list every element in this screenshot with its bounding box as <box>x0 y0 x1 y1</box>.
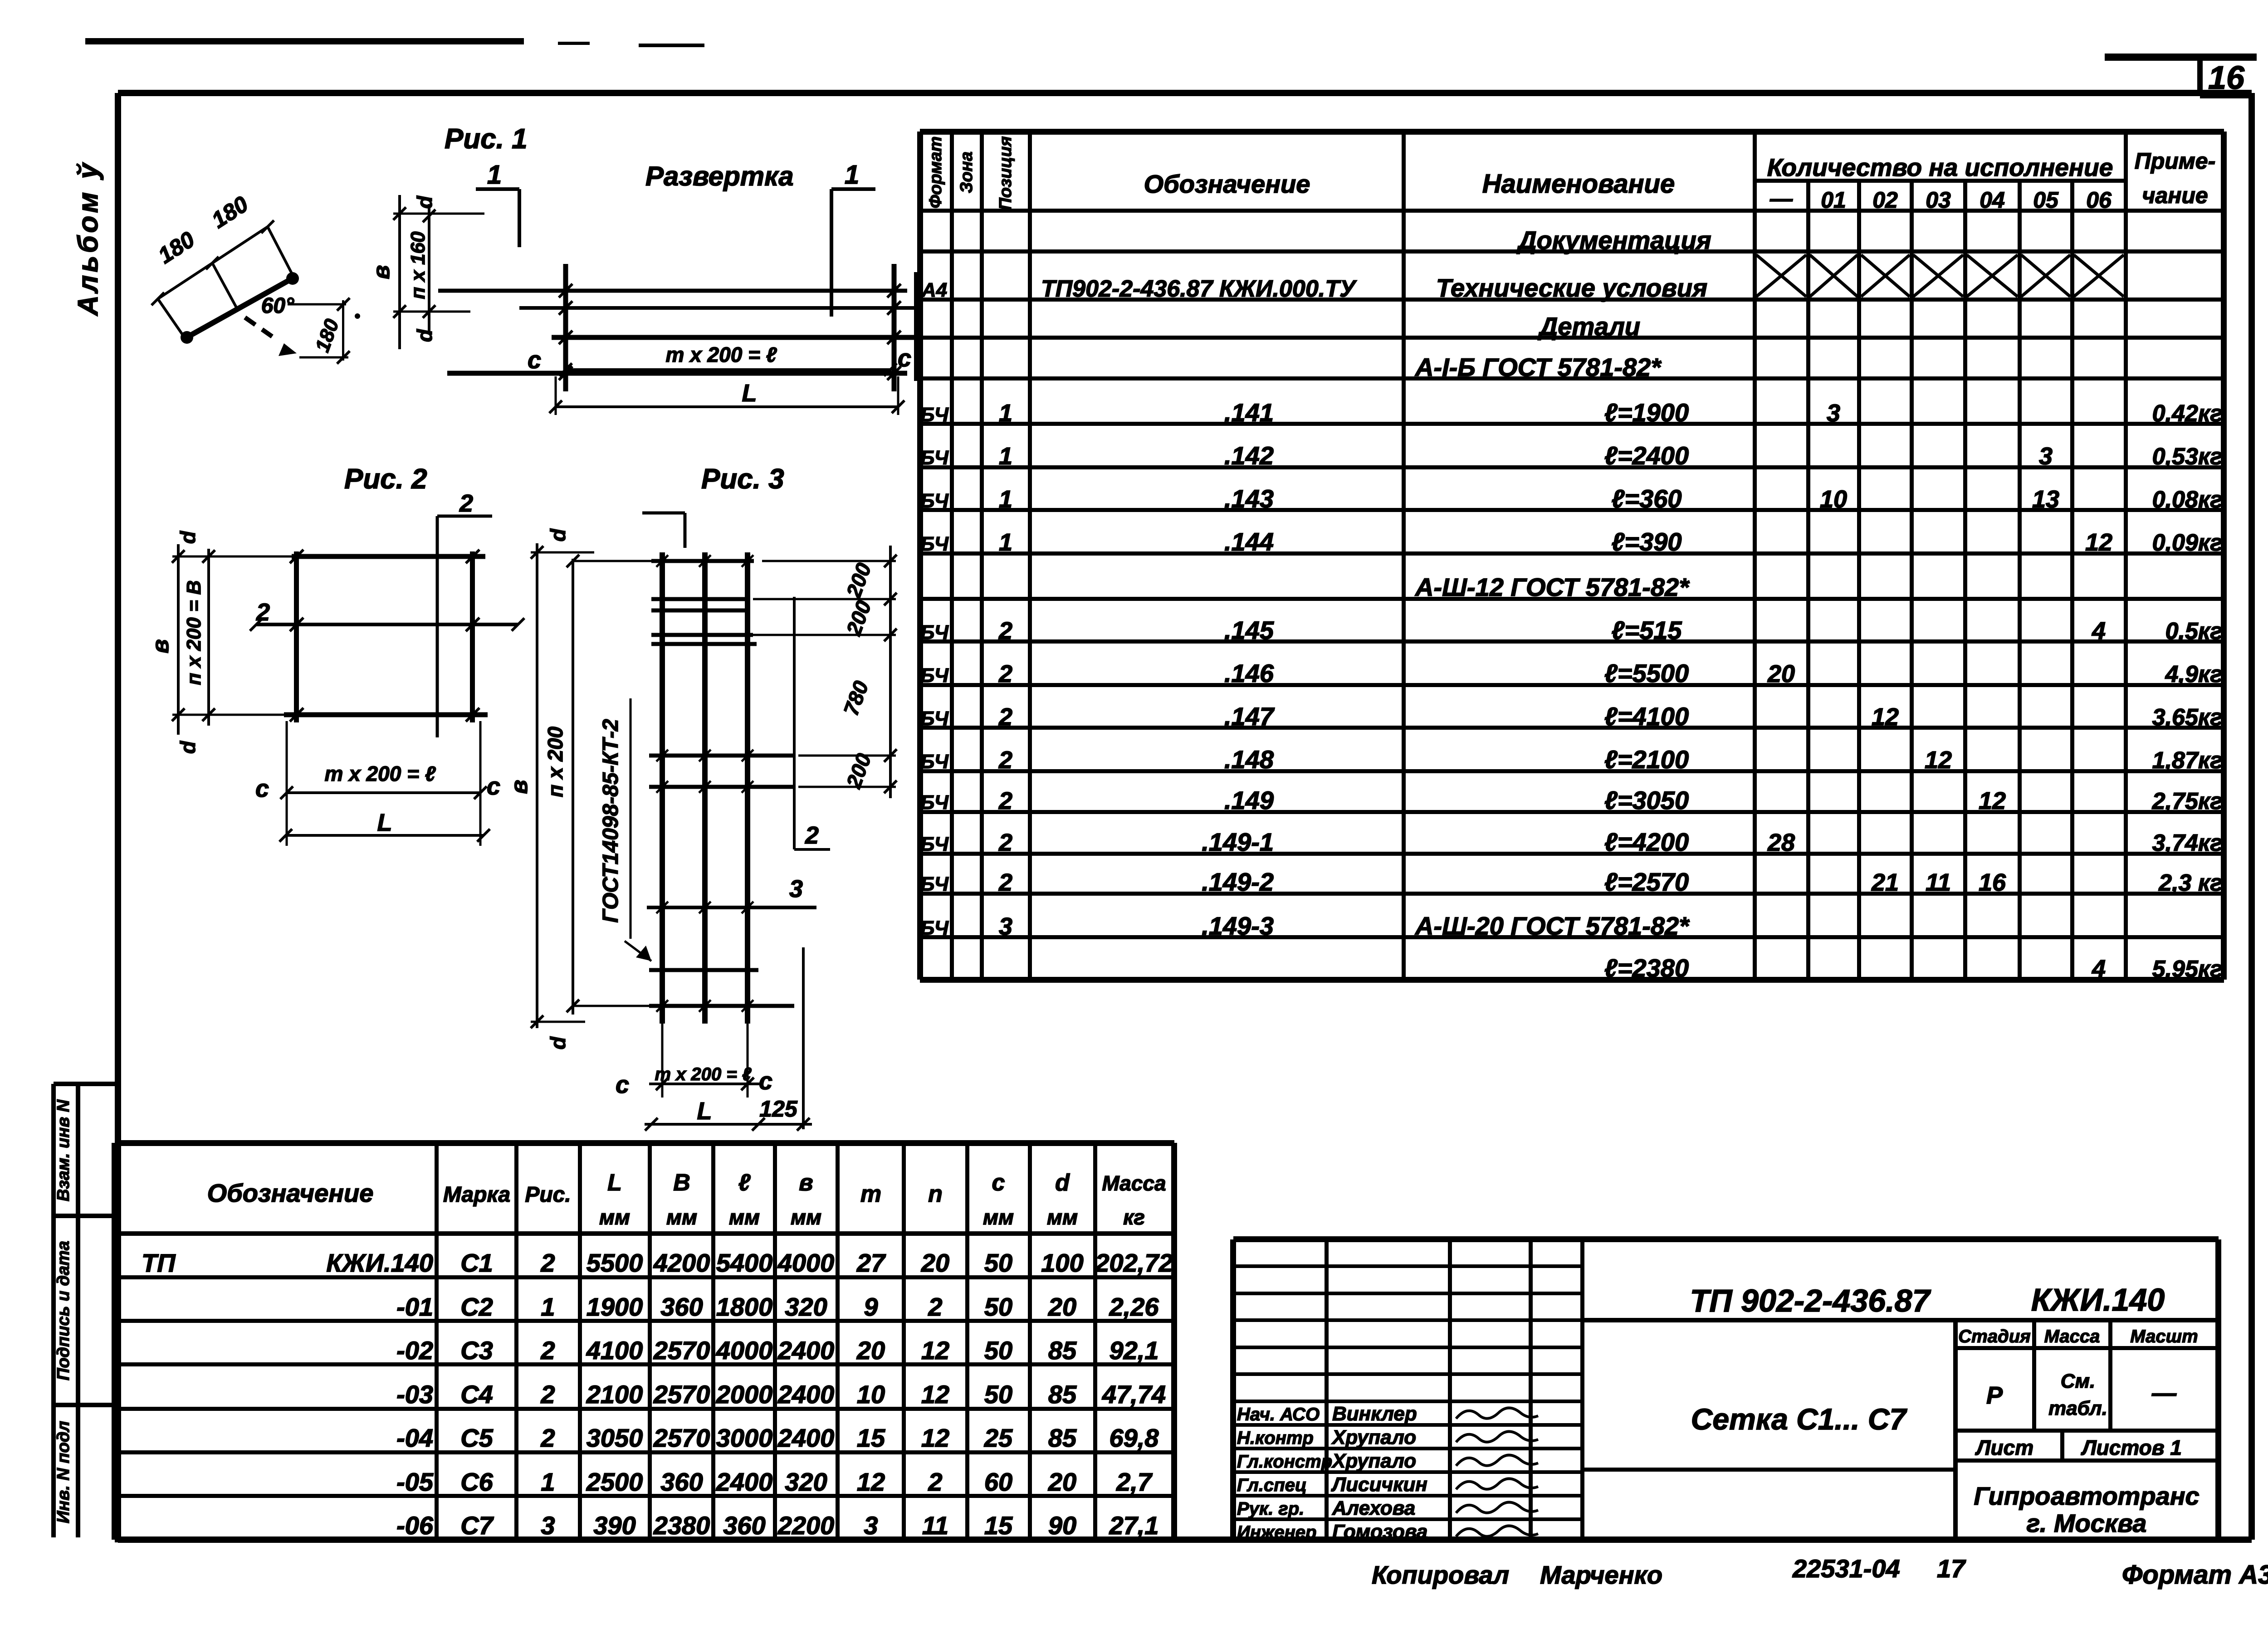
svg-text:50: 50 <box>984 1380 1012 1409</box>
svg-text:Позиция: Позиция <box>996 136 1015 210</box>
svg-text:ТП: ТП <box>142 1249 176 1277</box>
svg-text:2: 2 <box>540 1424 555 1452</box>
svg-text:3: 3 <box>541 1511 555 1540</box>
svg-text:Обозначение: Обозначение <box>1144 170 1310 198</box>
svg-text:БЧ: БЧ <box>920 404 949 426</box>
svg-text:2: 2 <box>805 822 819 849</box>
svg-text:n: n <box>928 1181 943 1207</box>
svg-text:20: 20 <box>856 1336 885 1365</box>
svg-text:13: 13 <box>2032 486 2059 513</box>
svg-text:2: 2 <box>998 829 1012 856</box>
svg-text:5400: 5400 <box>716 1249 773 1277</box>
svg-text:5,95кг: 5,95кг <box>2152 956 2223 982</box>
svg-text:Рис. 2: Рис. 2 <box>344 463 427 495</box>
svg-text:-05: -05 <box>396 1468 434 1496</box>
svg-text:БЧ: БЧ <box>920 707 949 730</box>
svg-text:d: d <box>413 195 436 209</box>
svg-text:БЧ: БЧ <box>920 533 949 555</box>
svg-text:Винклер: Винклер <box>1332 1403 1417 1425</box>
svg-text:Гипроавтотранс: Гипроавтотранс <box>1974 1482 2199 1510</box>
svg-text:c: c <box>759 1068 772 1095</box>
svg-text:ℓ=2380: ℓ=2380 <box>1604 954 1689 982</box>
svg-text:c: c <box>992 1170 1005 1196</box>
svg-text:3,74кг: 3,74кг <box>2152 830 2223 856</box>
svg-text:мм: мм <box>599 1205 630 1229</box>
svg-text:В: В <box>673 1170 690 1196</box>
svg-text:2400: 2400 <box>777 1380 835 1409</box>
svg-text:.144: .144 <box>1224 527 1274 556</box>
svg-text:85: 85 <box>1048 1380 1077 1409</box>
svg-text:11: 11 <box>922 1511 948 1540</box>
svg-text:17: 17 <box>1937 1554 1966 1583</box>
svg-text:16: 16 <box>2208 60 2245 96</box>
svg-text:d: d <box>176 531 200 544</box>
svg-text:ℓ=2400: ℓ=2400 <box>1604 441 1689 470</box>
svg-text:0,53кг: 0,53кг <box>2152 444 2223 470</box>
svg-text:2: 2 <box>998 869 1012 896</box>
svg-text:3: 3 <box>999 913 1012 940</box>
svg-text:-03: -03 <box>396 1380 433 1409</box>
svg-text:.142: .142 <box>1224 441 1274 470</box>
svg-text:2: 2 <box>928 1293 942 1321</box>
svg-text:1: 1 <box>541 1468 555 1496</box>
svg-text:2,7: 2,7 <box>1116 1468 1153 1496</box>
svg-text:1: 1 <box>999 486 1012 513</box>
svg-text:125: 125 <box>759 1096 798 1122</box>
svg-text:Н.контр: Н.контр <box>1237 1428 1314 1448</box>
svg-text:320: 320 <box>785 1468 827 1496</box>
svg-text:Лист: Лист <box>1975 1436 2033 1459</box>
svg-text:16: 16 <box>1979 869 2006 896</box>
svg-text:m: m <box>860 1181 881 1207</box>
svg-text:3: 3 <box>789 875 803 902</box>
svg-text:202,72: 202,72 <box>1095 1249 1173 1277</box>
svg-text:12: 12 <box>921 1424 949 1452</box>
svg-text:мм: мм <box>666 1205 697 1229</box>
svg-text:.149-3: .149-3 <box>1202 912 1274 940</box>
svg-text:.146: .146 <box>1224 659 1274 688</box>
svg-text:c: c <box>487 773 500 800</box>
svg-text:Рис. 1: Рис. 1 <box>445 123 528 155</box>
svg-text:1800: 1800 <box>716 1293 773 1321</box>
svg-text:С4: С4 <box>460 1380 493 1409</box>
svg-text:L: L <box>377 809 392 836</box>
svg-text:2500: 2500 <box>586 1468 643 1496</box>
svg-text:в: в <box>506 780 533 794</box>
svg-text:12: 12 <box>921 1380 949 1409</box>
svg-text:ℓ=1900: ℓ=1900 <box>1604 398 1689 427</box>
svg-text:12: 12 <box>1872 703 1899 731</box>
svg-text:69,8: 69,8 <box>1110 1424 1159 1452</box>
svg-text:Приме-: Приме- <box>2135 148 2216 174</box>
svg-text:0,5кг: 0,5кг <box>2165 618 2223 644</box>
svg-text:п х 200 = В: п х 200 = В <box>183 580 205 685</box>
svg-text:Документация: Документация <box>1516 226 1711 254</box>
svg-text:3050: 3050 <box>587 1424 643 1452</box>
svg-text:Лисичкин: Лисичкин <box>1331 1473 1427 1496</box>
svg-text:12: 12 <box>1925 746 1952 774</box>
svg-text:—: — <box>1769 186 1793 211</box>
svg-text:Хрупало: Хрупало <box>1331 1450 1416 1472</box>
svg-text:15: 15 <box>984 1511 1013 1540</box>
svg-text:9: 9 <box>864 1293 878 1321</box>
svg-text:.141: .141 <box>1224 398 1274 427</box>
svg-text:10: 10 <box>857 1380 885 1409</box>
svg-text:0,42кг: 0,42кг <box>2152 400 2223 427</box>
svg-text:Гомозова: Гомозова <box>1332 1521 1427 1543</box>
svg-text:c: c <box>616 1071 629 1098</box>
svg-text:2,75кг: 2,75кг <box>2152 788 2223 815</box>
svg-text:2400: 2400 <box>777 1336 835 1365</box>
svg-text:5500: 5500 <box>587 1249 643 1277</box>
svg-text:БЧ: БЧ <box>920 917 949 939</box>
svg-text:27,1: 27,1 <box>1109 1511 1159 1540</box>
svg-text:Масса: Масса <box>1102 1171 1166 1195</box>
svg-text:85: 85 <box>1048 1424 1077 1452</box>
svg-text:Наименование: Наименование <box>1482 169 1675 199</box>
svg-text:2: 2 <box>998 703 1012 731</box>
svg-text:1,87кг: 1,87кг <box>2152 747 2223 774</box>
svg-text:Развертка: Развертка <box>645 161 794 191</box>
svg-text:С5: С5 <box>460 1424 493 1452</box>
svg-text:Подпись и дата: Подпись и дата <box>54 1241 73 1380</box>
svg-text:4200: 4200 <box>653 1249 710 1277</box>
svg-text:1: 1 <box>999 400 1012 427</box>
svg-text:Гл.констр: Гл.констр <box>1237 1452 1332 1472</box>
svg-text:15: 15 <box>857 1424 885 1452</box>
svg-text:1: 1 <box>999 529 1012 556</box>
svg-text:60°: 60° <box>261 294 294 318</box>
svg-text:2: 2 <box>998 746 1012 774</box>
svg-text:БЧ: БЧ <box>920 751 949 773</box>
svg-text:20: 20 <box>1048 1293 1076 1321</box>
svg-text:12: 12 <box>2085 529 2112 556</box>
svg-text:0,08кг: 0,08кг <box>2152 487 2223 513</box>
svg-text:2000: 2000 <box>716 1380 773 1409</box>
svg-text:ℓ=3050: ℓ=3050 <box>1604 786 1689 815</box>
svg-text:С1: С1 <box>460 1249 493 1277</box>
svg-text:20: 20 <box>1048 1468 1076 1496</box>
svg-text:01: 01 <box>1821 187 1846 213</box>
svg-text:А4: А4 <box>921 279 947 301</box>
svg-text:2380: 2380 <box>653 1511 710 1540</box>
svg-text:50: 50 <box>984 1249 1012 1277</box>
svg-text:02: 02 <box>1872 187 1898 213</box>
svg-text:3000: 3000 <box>716 1424 773 1452</box>
svg-text:28: 28 <box>1767 829 1795 856</box>
svg-text:.149: .149 <box>1224 786 1274 815</box>
svg-text:2: 2 <box>540 1380 555 1409</box>
svg-text:.147: .147 <box>1224 702 1275 731</box>
svg-text:чание: чание <box>2142 183 2208 208</box>
svg-text:—: — <box>2151 1380 2177 1407</box>
svg-text:КЖИ.140: КЖИ.140 <box>2031 1282 2165 1317</box>
svg-text:11: 11 <box>1926 869 1951 896</box>
svg-text:L: L <box>607 1170 622 1196</box>
svg-text:Марченко: Марченко <box>1540 1561 1662 1589</box>
svg-text:3: 3 <box>864 1511 878 1540</box>
svg-text:20: 20 <box>921 1249 949 1277</box>
svg-text:КЖИ.140: КЖИ.140 <box>326 1249 433 1277</box>
svg-text:Технические условия: Технические условия <box>1436 273 1707 302</box>
svg-text:ℓ=2570: ℓ=2570 <box>1604 868 1689 896</box>
svg-text:d: d <box>546 1036 570 1049</box>
svg-text:Гл.спец: Гл.спец <box>1237 1475 1307 1495</box>
svg-text:10: 10 <box>1820 486 1847 513</box>
svg-text:мм: мм <box>729 1205 760 1229</box>
svg-text:2570: 2570 <box>653 1424 710 1452</box>
svg-text:А-Ш-12 ГОСТ 5781-82*: А-Ш-12 ГОСТ 5781-82* <box>1414 573 1690 601</box>
svg-text:90: 90 <box>1048 1511 1076 1540</box>
svg-text:мм: мм <box>791 1205 821 1229</box>
svg-text:См.: См. <box>2061 1370 2096 1392</box>
svg-text:Взам. инв N: Взам. инв N <box>54 1099 73 1201</box>
svg-text:L: L <box>742 380 757 407</box>
svg-text:Формат А3: Формат А3 <box>2122 1560 2268 1590</box>
svg-text:Хрупало: Хрупало <box>1331 1426 1416 1449</box>
svg-text:3,65кг: 3,65кг <box>2152 704 2223 731</box>
svg-text:2: 2 <box>998 617 1012 644</box>
svg-text:390: 390 <box>593 1511 635 1540</box>
svg-text:2100: 2100 <box>586 1380 643 1409</box>
svg-text:22531-04: 22531-04 <box>1792 1554 1900 1583</box>
svg-text:ℓ=515: ℓ=515 <box>1611 616 1682 644</box>
svg-text:m x 200 = ℓ: m x 200 = ℓ <box>325 762 436 785</box>
svg-text:2200: 2200 <box>777 1511 835 1540</box>
svg-text:03: 03 <box>1926 187 1951 213</box>
svg-text:БЧ: БЧ <box>920 447 949 469</box>
svg-text:2400: 2400 <box>777 1424 835 1452</box>
svg-text:c: c <box>255 775 269 802</box>
svg-text:ℓ=4200: ℓ=4200 <box>1604 828 1689 856</box>
svg-text:Зона: Зона <box>957 151 976 193</box>
svg-text:4000: 4000 <box>716 1336 773 1365</box>
svg-text:Альбом ў: Альбом ў <box>73 161 104 317</box>
svg-text:d: d <box>1055 1170 1070 1196</box>
svg-text:БЧ: БЧ <box>920 490 949 512</box>
svg-text:п х 200: п х 200 <box>543 727 567 797</box>
svg-text:12: 12 <box>921 1336 949 1365</box>
svg-text:ТП902-2-436.87 КЖИ.000.ТУ: ТП902-2-436.87 КЖИ.000.ТУ <box>1041 276 1357 302</box>
svg-text:1: 1 <box>845 160 859 190</box>
svg-text:ℓ=4100: ℓ=4100 <box>1604 702 1689 731</box>
svg-text:мм: мм <box>1047 1205 1078 1229</box>
svg-text:60: 60 <box>984 1468 1012 1496</box>
svg-text:.145: .145 <box>1224 616 1274 644</box>
svg-text:табл.: табл. <box>2048 1397 2107 1419</box>
svg-text:п х 160: п х 160 <box>407 231 429 299</box>
svg-text:Стадия: Стадия <box>1958 1327 2030 1346</box>
svg-text:3: 3 <box>1827 400 1840 427</box>
svg-text:06: 06 <box>2086 187 2112 213</box>
svg-text:0,09кг: 0,09кг <box>2152 530 2223 556</box>
svg-text:Сетка С1... С7: Сетка С1... С7 <box>1691 1402 1908 1436</box>
svg-text:2,3 кг: 2,3 кг <box>2158 870 2223 896</box>
svg-text:ГОСТ14098-85-КТ-2: ГОСТ14098-85-КТ-2 <box>599 719 623 923</box>
svg-text:1: 1 <box>487 160 502 190</box>
svg-text:в: в <box>147 639 174 653</box>
svg-text:кг: кг <box>1123 1205 1145 1229</box>
svg-text:320: 320 <box>785 1293 827 1321</box>
svg-text:c: c <box>528 346 541 374</box>
svg-text:360: 360 <box>660 1293 703 1321</box>
svg-text:Детали: Детали <box>1538 312 1640 341</box>
svg-text:4,9кг: 4,9кг <box>2165 661 2223 688</box>
svg-text:m x 200 = ℓ: m x 200 = ℓ <box>666 343 777 366</box>
svg-text:Марка: Марка <box>443 1183 510 1207</box>
svg-text:С3: С3 <box>460 1336 493 1365</box>
svg-text:Обозначение: Обозначение <box>207 1179 374 1207</box>
svg-text:С6: С6 <box>460 1468 493 1496</box>
svg-text:3: 3 <box>2039 443 2053 470</box>
svg-text:2570: 2570 <box>653 1336 710 1365</box>
svg-text:20: 20 <box>1767 660 1795 688</box>
svg-text:Инв. N подл: Инв. N подл <box>54 1421 73 1523</box>
svg-text:2: 2 <box>998 787 1012 815</box>
svg-text:m x 200 = ℓ: m x 200 = ℓ <box>655 1064 751 1084</box>
svg-text:мм: мм <box>983 1205 1014 1229</box>
svg-text:2570: 2570 <box>653 1380 710 1409</box>
svg-text:А-Ш-20 ГОСТ 5781-82*: А-Ш-20 ГОСТ 5781-82* <box>1414 912 1690 940</box>
svg-text:c: c <box>898 345 911 372</box>
svg-text:Алехова: Алехова <box>1332 1497 1415 1519</box>
svg-text:2: 2 <box>540 1336 555 1365</box>
svg-text:360: 360 <box>660 1468 703 1496</box>
svg-text:100: 100 <box>1041 1249 1083 1277</box>
svg-text:4000: 4000 <box>777 1249 835 1277</box>
svg-text:25: 25 <box>984 1424 1013 1452</box>
svg-text:4100: 4100 <box>586 1336 643 1365</box>
svg-text:85: 85 <box>1048 1336 1077 1365</box>
svg-text:Формат: Формат <box>926 137 945 209</box>
svg-text:4: 4 <box>2092 617 2106 644</box>
svg-text:А-I-Б ГОСТ 5781-82*: А-I-Б ГОСТ 5781-82* <box>1414 353 1662 381</box>
svg-text:4: 4 <box>2092 955 2106 982</box>
svg-text:Копировал: Копировал <box>1372 1561 1509 1589</box>
svg-text:ℓ=5500: ℓ=5500 <box>1604 659 1689 688</box>
svg-text:12: 12 <box>1979 787 2006 815</box>
svg-text:Инженер: Инженер <box>1237 1522 1316 1542</box>
svg-text:d: d <box>546 528 570 541</box>
svg-text:-01: -01 <box>396 1293 433 1321</box>
svg-text:.148: .148 <box>1224 745 1274 774</box>
svg-text:92,1: 92,1 <box>1110 1336 1159 1365</box>
svg-text:1: 1 <box>999 443 1012 470</box>
svg-text:360: 360 <box>723 1511 765 1540</box>
svg-text:ℓ=2100: ℓ=2100 <box>1604 745 1689 774</box>
svg-text:.149-2: .149-2 <box>1202 868 1274 896</box>
svg-text:в: в <box>368 265 395 279</box>
svg-text:Рис.: Рис. <box>525 1183 571 1207</box>
svg-text:04: 04 <box>1980 187 2005 213</box>
svg-text:БЧ: БЧ <box>920 873 949 895</box>
svg-text:БЧ: БЧ <box>920 791 949 814</box>
svg-text:Масшт: Масшт <box>2130 1327 2198 1346</box>
svg-text:2,26: 2,26 <box>1109 1293 1159 1321</box>
svg-text:.143: .143 <box>1224 484 1274 513</box>
svg-text:-06: -06 <box>396 1511 434 1540</box>
svg-text:ℓ=360: ℓ=360 <box>1611 484 1681 513</box>
svg-text:БЧ: БЧ <box>920 664 949 687</box>
svg-text:Нач. АСО: Нач. АСО <box>1237 1405 1320 1424</box>
svg-text:Рис. 3: Рис. 3 <box>701 463 784 495</box>
svg-text:50: 50 <box>984 1293 1012 1321</box>
svg-text:БЧ: БЧ <box>920 621 949 644</box>
svg-text:-02: -02 <box>396 1336 433 1365</box>
svg-text:Р: Р <box>1986 1382 2003 1409</box>
svg-text:БЧ: БЧ <box>920 833 949 855</box>
svg-text:47,74: 47,74 <box>1102 1380 1166 1409</box>
svg-text:-04: -04 <box>396 1424 433 1452</box>
svg-text:d: d <box>413 329 436 342</box>
svg-text:L: L <box>697 1097 712 1125</box>
svg-text:d: d <box>176 741 200 754</box>
svg-text:2400: 2400 <box>716 1468 773 1496</box>
svg-text:Листов 1: Листов 1 <box>2081 1436 2182 1459</box>
svg-text:ТП 902-2-436.87: ТП 902-2-436.87 <box>1690 1283 1931 1318</box>
svg-text:Рук. гр.: Рук. гр. <box>1237 1499 1304 1519</box>
svg-text:С7: С7 <box>460 1511 494 1540</box>
svg-text:ℓ=390: ℓ=390 <box>1611 527 1681 556</box>
svg-text:27: 27 <box>856 1249 886 1277</box>
svg-text:12: 12 <box>857 1468 885 1496</box>
svg-text:г. Москва: г. Москва <box>2027 1509 2147 1537</box>
svg-text:2: 2 <box>928 1468 942 1496</box>
svg-text:2: 2 <box>998 660 1012 688</box>
svg-text:ℓ: ℓ <box>738 1170 751 1196</box>
svg-text:1: 1 <box>541 1293 555 1321</box>
svg-text:1900: 1900 <box>587 1293 643 1321</box>
svg-text:05: 05 <box>2033 187 2059 213</box>
svg-text:2: 2 <box>459 490 473 517</box>
svg-text:.149-1: .149-1 <box>1202 828 1274 856</box>
svg-text:21: 21 <box>1871 869 1899 896</box>
svg-text:в: в <box>799 1170 813 1196</box>
svg-text:С2: С2 <box>460 1293 493 1321</box>
svg-text:Количество на исполнение: Количество на исполнение <box>1767 153 2113 181</box>
svg-text:Масса: Масса <box>2044 1327 2100 1346</box>
svg-text:2: 2 <box>540 1249 555 1277</box>
svg-text:50: 50 <box>984 1336 1012 1365</box>
